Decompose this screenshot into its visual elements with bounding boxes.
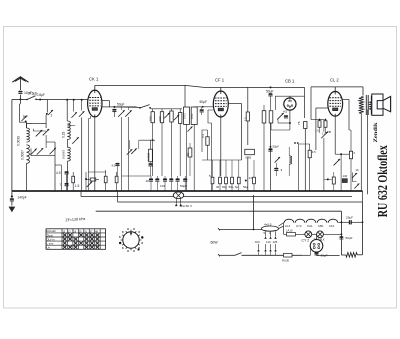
svg-text:3: 3 [281,168,283,172]
node 50uF DB1 [270,86,272,88]
svg-text:CA1: CA1 [307,224,313,228]
svg-text:0.8µF: 0.8µF [37,93,45,97]
svg-text:10: 10 [244,117,248,121]
horizontal link y160 [202,159,242,161]
IF transformer T2 box [191,107,197,124]
IF transformer T1 box [184,107,190,124]
capacitor row b [169,178,173,180]
resistor 0.3 left [206,137,209,146]
wire left column x11.9 [11,100,13,197]
coil L2 0.0067 [27,145,30,164]
svg-text:0.3: 0.3 [201,133,205,138]
wire mains bottom [219,254,235,256]
switch S1 antenna [27,96,36,100]
lamp 1 [305,231,312,238]
capacitor blob x276 [274,168,278,170]
trimmer C-t4 [37,148,44,155]
wire CK1 right pins [102,100,110,102]
svg-text:Rozsah: Rozsah [47,229,57,233]
antenna [12,77,28,82]
resistor 4 x351 [349,151,352,159]
coil box 0.012 a [262,111,266,123]
resistor 0.1 c [170,111,173,122]
trimmer pair y151 [127,149,133,155]
capacitor x117 squiggle [115,163,119,165]
svg-text:140pF: 140pF [18,195,27,199]
svg-text:CY 2: CY 2 [302,239,310,243]
coil L3 0.29 [66,100,68,121]
wire trimmer frame [34,129,47,131]
horizontal link y172 [89,171,106,173]
svg-text:60W: 60W [211,241,219,245]
svg-text:75: 75 [297,121,301,125]
svg-text:50µF: 50µF [346,236,353,240]
svg-text:2: 2 [51,114,53,118]
tube CK1 [88,90,102,117]
pickup bracket [353,173,357,182]
capacitor row 1F [149,178,153,180]
wire CL2 left pin [316,107,328,109]
node antenna junction [19,99,21,101]
svg-text:RU 632 Oktoflex: RU 632 Oktoflex [375,145,390,217]
rail y211.5 [96,210,342,212]
svg-text:cca 60 V: cca 60 V [180,204,193,208]
speaker frame [371,96,373,101]
ground left [11,195,13,197]
selector pins [265,231,267,236]
trimmer x357 [354,184,359,189]
node bus dots [66,99,68,101]
svg-text:CB 1: CB 1 [285,79,295,84]
heater chain [279,226,284,229]
trimmer mid3 [174,115,180,121]
svg-text:50µF: 50µF [200,100,207,104]
svg-text:RU30: RU30 [282,259,290,263]
wire coil2 column [66,140,68,148]
wire x270.5 long [270,123,272,191]
resistor 10 x247.8 [247,87,249,112]
svg-text:CK 1: CK 1 [89,77,99,82]
tube CF7 [213,91,228,117]
resistor 100 a [151,112,154,123]
mains switch [235,253,242,256]
wire antenna down [19,95,21,100]
node x47 [46,113,48,115]
svg-text:50µF: 50µF [117,102,124,106]
trimmer DB1 a [277,113,284,120]
output transformer primary [359,97,364,114]
wire CK1 left pin [87,99,89,101]
band switch dial [123,232,139,248]
lamp row wire [284,233,303,235]
resistor row2 10 x232 [231,177,234,184]
wire top bus CF7-DB1 [221,86,305,88]
coil box 50 x190 [188,148,192,157]
capacitor 30uF [314,252,318,254]
frequency table [46,229,106,250]
wire CK1 bottom left pin [90,116,92,119]
trimmer 2B CL2 [321,132,328,139]
svg-text:JU0: JU0 [255,240,260,244]
wire drop x304.5 [304,87,306,118]
svg-text:104: 104 [160,184,165,188]
svg-text:4.5: 4.5 [56,171,61,175]
coil L4 0.0067b [67,147,70,161]
trimmer C-t1 [36,130,43,137]
svg-text:4x0.5: 4x0.5 [264,222,272,226]
speaker magnet [377,101,383,109]
svg-text:40: 40 [216,185,220,189]
trimmer IF [188,127,193,132]
svg-text:50µ: 50µ [229,185,234,189]
svg-text:CL2: CL2 [285,224,291,228]
wire CL2 bottom pin [334,116,336,154]
node 50uF mid [113,106,115,108]
trimmer x277 [275,157,281,163]
wire CK1 top pin [94,86,96,91]
bottom power loop [341,254,345,256]
node row2 [245,180,247,182]
transformer core [365,95,367,115]
wire chain baseline [283,223,285,235]
capacitor under 0.0105 [148,163,152,165]
wire drop x47 [46,100,48,113]
speaker voice coil [369,101,373,110]
coil box 0.012 b [269,111,273,123]
resistor 75 [304,122,307,129]
resistor 0.3b [115,176,118,183]
capacitor 4.5 DB1 [284,115,288,117]
svg-text:0.0039: 0.0039 [17,136,21,146]
nodes x295 [294,142,296,144]
node CL2 k [340,153,342,155]
wire CF7 top pin [220,87,222,91]
svg-text:100: 100 [149,116,153,121]
dial dark blobs [141,236,143,238]
capacitor 7 left [65,183,69,185]
resistor 0.05 x247.8 [245,149,255,154]
capacitor 25uF [341,221,348,223]
svg-text:50µF: 50µF [180,184,187,188]
wire x55 column [54,142,56,191]
svg-text:1F: 1F [356,168,360,172]
capacitor 50uF power [339,236,343,238]
wire speaker return [367,110,369,195]
resistor hor 0.1 [90,178,96,181]
resistor 4.5 x309 [308,150,311,158]
tube DB1 [284,98,296,110]
svg-text:~: ~ [175,204,177,208]
svg-text:50µF: 50µF [273,145,280,149]
svg-text:50µF: 50µF [266,89,273,93]
tube CY2 [310,240,323,253]
svg-text:4,5: 4,5 [112,164,116,168]
wire CL2 top pin [334,87,336,92]
svg-text:CF1: CF1 [329,224,335,228]
wire DB1 bottom pin [289,110,291,123]
table X marks [63,233,67,236]
capacitor row d 50uF [183,178,187,180]
trimmer C-t8 [81,100,83,111]
trimmer C-t7 [73,100,75,112]
wire x61.4 [60,165,62,191]
svg-text:5: 5 [209,174,211,178]
svg-text:14: 14 [249,176,253,180]
svg-text:140: 140 [343,174,348,178]
wire x362.5 power [362,202,364,255]
capacitor x270 y149 [268,148,272,150]
wire CF7 left frame [208,110,213,123]
capacitor row 18 [155,178,159,180]
node 0.8uF [39,99,41,101]
capacitor row 104 [163,178,167,180]
wire top bus CK1-CF7 [95,84,185,86]
svg-text:0.0067: 0.0067 [61,149,65,159]
resistor row2 5 x212.5 [211,177,214,184]
svg-text:CB1: CB1 [318,224,324,228]
resistor row2 1 x220 [219,177,222,184]
wire antenna bus [20,99,27,101]
wire DB1 top [275,95,304,97]
node 50uF CF7grid [194,106,213,108]
svg-text:1F: 1F [146,179,150,183]
resistor 1.5 [72,176,75,183]
node x86 dot [85,178,87,180]
lamp 2 [317,231,324,238]
capacitor 10pF antenna [18,91,22,93]
svg-text:50µ: 50µ [222,185,227,189]
capacitor row c [176,178,180,180]
rail y196.5 [81,196,174,198]
wire CY2 bottom to right [316,252,318,255]
resistor row2 50 x238.8 [237,177,240,184]
svg-text:0.29: 0.29 [62,131,66,138]
trimmer C-t6 [72,137,79,144]
svg-text:0.01: 0.01 [190,113,194,119]
capacitor DB1 coupling [268,93,272,95]
wire CY2 top [316,234,318,239]
wire x253.5 drop [253,195,255,230]
resistor 0.2 [104,176,107,183]
right power column x341.4 [340,211,342,255]
resistor 100 b [160,112,163,123]
heater chain wire [339,222,342,224]
svg-text:110: 110 [266,240,271,244]
node y179 a [327,178,329,180]
trimmer C-t3 [30,149,37,156]
svg-text:1.5: 1.5 [75,184,80,188]
svg-text:0.03: 0.03 [182,113,186,119]
wire resistor top rail [149,108,152,109]
speaker cone [383,96,391,111]
svg-text:DLV m: DLV m [47,237,56,241]
horizontal link y176 [122,175,152,177]
svg-text:LA10: LA10 [286,229,293,233]
trimmer mid2 [164,113,170,119]
trimmer C-t5 [50,148,57,155]
wire CL2 to transformer [362,87,364,96]
resistor RU30 [284,253,293,257]
svg-text:0.05: 0.05 [246,156,252,160]
rail y202 [118,201,363,203]
wire CK1 bottom pin [94,117,96,191]
trimmer C-t2 [43,129,50,136]
coil small x289 [289,156,291,164]
wire DB1 links [271,129,290,131]
svg-text:L mm: L mm [47,242,54,246]
wire CF7 bottom pin [220,117,222,176]
wire coil top hook [27,124,33,129]
svg-text:0.0067: 0.0067 [20,150,24,160]
capacitor mid 50uF [112,109,116,111]
wire CF7 right pin [228,103,241,105]
svg-text:CL 2: CL 2 [330,78,339,83]
resistor 30 dark [342,179,347,183]
resistor 0.07 d [179,113,182,124]
svg-text:4.5: 4.5 [312,150,316,154]
wire x46 column [45,115,47,128]
wire CL2 right pin [343,99,349,101]
resistors 1.0 pair [318,121,321,128]
bus ground main [12,190,363,192]
svg-text:CY2: CY2 [296,224,302,228]
resistor x333 [332,177,335,184]
svg-text:100: 100 [158,116,162,121]
wire drop x185 [184,85,186,107]
coil box 0.0105 [149,149,153,162]
trimmer under [87,182,93,188]
resistor row2 10 x226 [225,177,228,184]
svg-text:125: 125 [273,240,278,244]
svg-text:0.0105: 0.0105 [146,152,150,161]
svg-text:CF 1: CF 1 [215,78,225,83]
svg-text:50: 50 [186,152,190,156]
resistor LA10 [287,233,296,236]
trimmer CL2 b [334,159,341,166]
svg-text:4.5: 4.5 [283,110,288,114]
wire IF columns [186,124,188,191]
svg-text:Zendik: Zendik [374,122,379,142]
wire link y125.5 [67,125,75,127]
wire CL2 top bus [311,86,363,88]
resistor row2 5 x254 [253,177,256,184]
node x270 y146.8 [270,146,272,148]
coil L1 0.0039 [27,128,30,142]
wire mains top [219,229,254,231]
svg-text:50µ: 50µ [243,185,248,189]
svg-text:5µ: 5µ [235,185,239,189]
wire y140 link [139,139,155,141]
svg-text:2B: 2B [327,130,331,134]
svg-text:Zkrat: Zkrat [47,233,54,237]
capacitor 4.5 left [65,171,69,173]
wire x19.5 down to coil [19,100,21,105]
trimmer pair mid [118,110,125,117]
svg-text:4: 4 [353,151,355,155]
svg-text:25µF: 25µF [346,215,353,219]
voltage selector oval [254,229,262,231]
tube CL2 [328,91,343,116]
switch S2 mid [140,105,150,108]
jack gramophone [173,192,183,199]
